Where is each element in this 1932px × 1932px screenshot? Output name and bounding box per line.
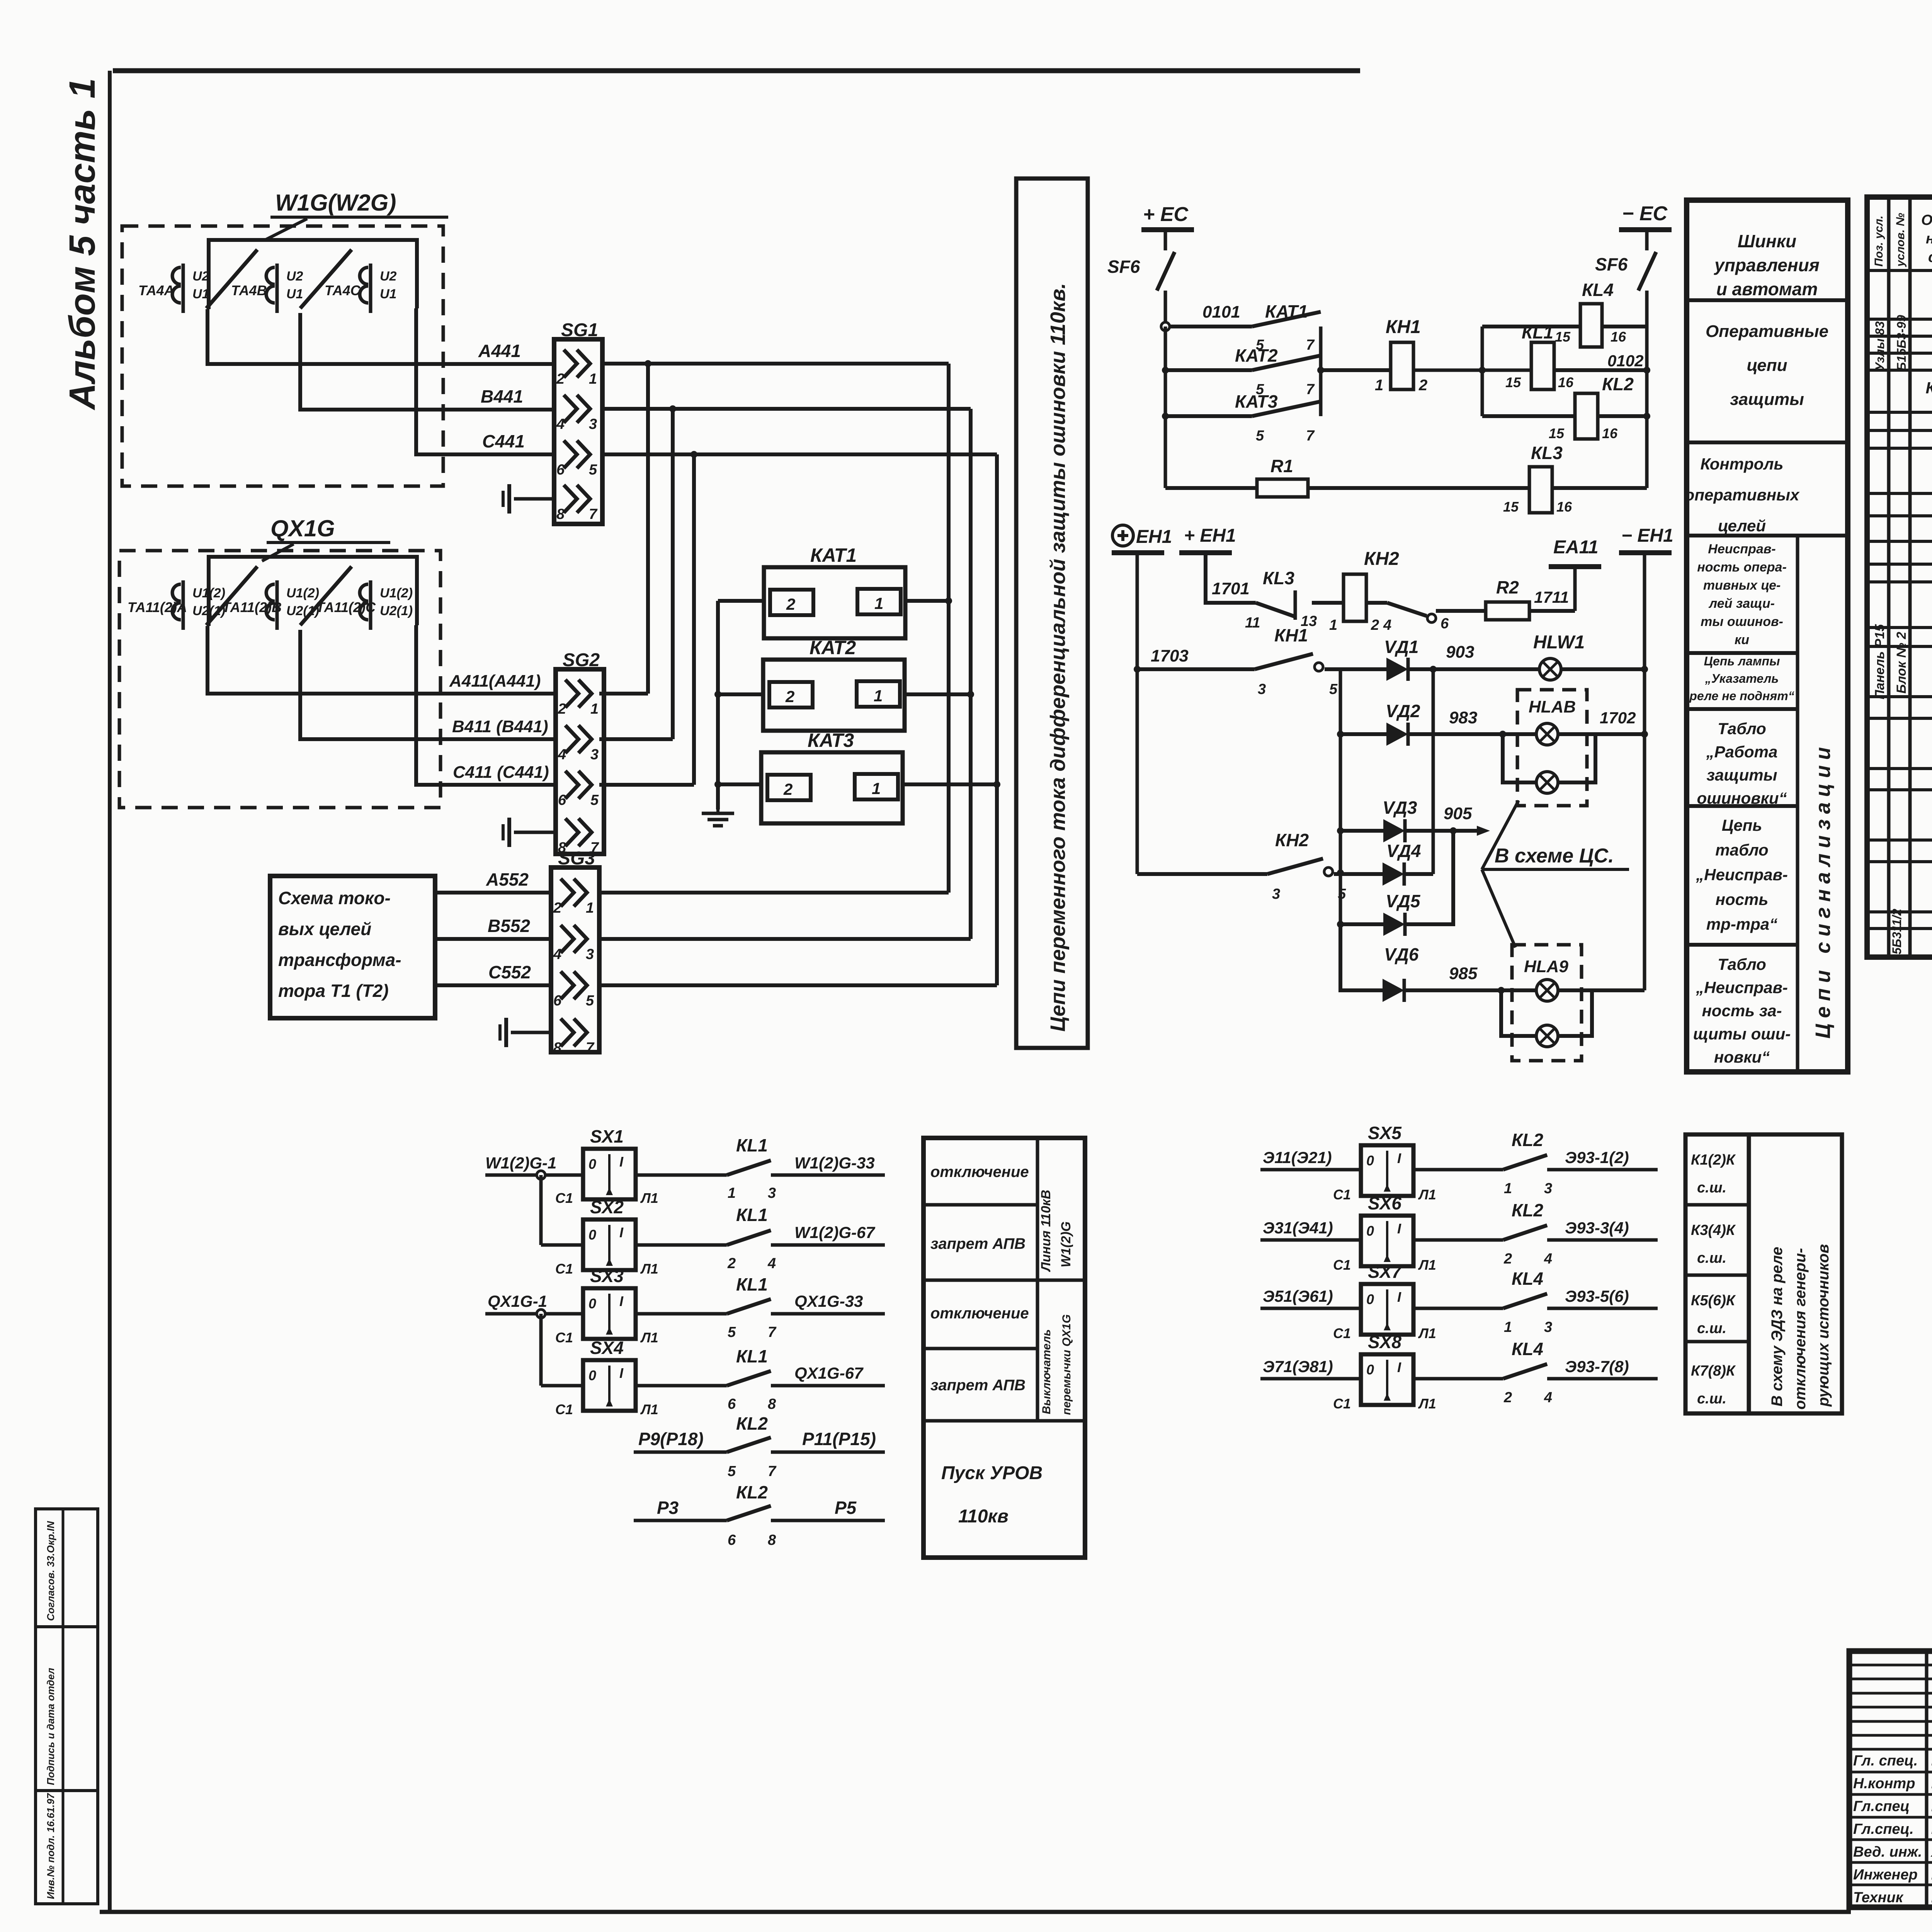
wire E71(E81): [1260, 1357, 1361, 1379]
svg-text:КАТ1: КАТ1: [810, 544, 857, 566]
svg-text:К7(8)К: К7(8)К: [1691, 1363, 1736, 1379]
svg-text:I: I: [1397, 1150, 1401, 1166]
svg-text:С411 (С441): С411 (С441): [453, 763, 549, 782]
svg-text:7: 7: [768, 1463, 777, 1480]
svg-text:I: I: [619, 1365, 624, 1381]
svg-text:А552: А552: [486, 869, 529, 889]
node 0101: [1161, 303, 1240, 331]
svg-text:КL1: КL1: [736, 1346, 768, 1366]
svg-text:VД5: VД5: [1386, 891, 1421, 911]
svg-text:Э51(Э61): Э51(Э61): [1263, 1287, 1333, 1305]
relay coil КАТ1: [764, 544, 905, 638]
svg-text:7: 7: [1306, 428, 1315, 444]
riser C441-KAT3-C552: [993, 454, 1000, 985]
diode bus vertical: [1337, 669, 1344, 990]
svg-text:С552: С552: [488, 962, 531, 982]
svg-text:15: 15: [1505, 374, 1521, 390]
svg-text:К3(4)К: К3(4)К: [1691, 1222, 1736, 1238]
wire SG2-5 to riser: [599, 783, 694, 787]
lamp HLA9 lower: [1501, 990, 1592, 1047]
bus +EC: [1141, 203, 1194, 232]
svg-text:Узлы 83: Узлы 83: [1873, 321, 1887, 371]
svg-text:перемычки QХ1G: перемычки QХ1G: [1060, 1314, 1073, 1415]
link VD5 to 905: [1406, 831, 1453, 924]
diode VD4: [1334, 841, 1433, 886]
svg-text:3: 3: [768, 1185, 776, 1201]
contact KAT2: [1165, 345, 1321, 398]
svg-text:„Работа: „Работа: [1706, 743, 1778, 761]
svg-text:Пуск УРОВ: Пуск УРОВ: [941, 1463, 1043, 1483]
contact KL1 row3: [636, 1274, 777, 1340]
contact KL4 row SX7: [1413, 1269, 1552, 1335]
note to central signalling: [1482, 801, 1629, 947]
svg-text:ки: ки: [1735, 633, 1749, 647]
svg-text:отключения генери-: отключения генери-: [1792, 1248, 1809, 1410]
svg-text:С1: С1: [1333, 1325, 1351, 1341]
svg-text:2: 2: [1503, 1251, 1512, 1267]
svg-text:Цепь: Цепь: [1722, 816, 1762, 834]
wire C441: [416, 308, 554, 454]
switch SX7: [1333, 1262, 1436, 1341]
switch SX4: [555, 1338, 658, 1417]
svg-text:15: 15: [1503, 499, 1519, 515]
wire SG3-3 to riser: [599, 937, 971, 941]
right signal bus -EH1: [1641, 555, 1648, 990]
svg-text:НLА9: НLА9: [1524, 957, 1568, 976]
svg-text:U1(2): U1(2): [380, 586, 413, 600]
svg-text:„Неисправ-: „Неисправ-: [1696, 978, 1788, 997]
switch SX2: [555, 1197, 658, 1277]
wire KAT3 pin2 to ground bus: [714, 781, 761, 788]
wire E93-1(2): [1547, 1148, 1658, 1170]
svg-text:3: 3: [1258, 681, 1266, 697]
svg-text:6: 6: [558, 792, 566, 808]
svg-text:Э93-5(6): Э93-5(6): [1565, 1287, 1629, 1305]
svg-text:QХ1G-67: QХ1G-67: [794, 1364, 864, 1383]
wire C411(C441): [416, 625, 556, 785]
svg-text:VД1: VД1: [1384, 637, 1418, 657]
svg-text:ошиновки“: ошиновки“: [1697, 789, 1787, 807]
svg-text:вых целей: вых целей: [278, 919, 371, 939]
svg-text:В схему ЭДЗ на реле: В схему ЭДЗ на реле: [1769, 1247, 1786, 1406]
svg-text:Л1: Л1: [640, 1190, 658, 1206]
svg-text:0: 0: [1366, 1223, 1374, 1239]
svg-text:запрет АПВ: запрет АПВ: [930, 1377, 1026, 1394]
svg-text:U2: U2: [286, 269, 303, 284]
svg-text:ТА11(2)А: ТА11(2)А: [128, 599, 187, 615]
svg-text:КL2: КL2: [1512, 1130, 1543, 1150]
svg-text:рующих источников: рующих источников: [1815, 1244, 1832, 1407]
svg-text:I: I: [619, 1293, 624, 1309]
contact KL1 row2: [636, 1205, 776, 1272]
svg-text:3: 3: [586, 946, 594, 963]
svg-text:2: 2: [1418, 377, 1427, 394]
svg-text:SG3: SG3: [558, 848, 595, 869]
right bus of control circuit: [1643, 327, 1650, 488]
svg-text:КL1: КL1: [736, 1135, 768, 1155]
function table line110: [923, 1138, 1085, 1558]
svg-text:С1: С1: [555, 1330, 573, 1345]
left bar of relay column: [1481, 327, 1484, 416]
wire E51(E61): [1260, 1287, 1361, 1308]
svg-text:4: 4: [767, 1255, 776, 1272]
svg-text:КL4: КL4: [1512, 1339, 1543, 1359]
svg-text:1: 1: [874, 687, 883, 705]
svg-text:SF6: SF6: [1107, 257, 1140, 277]
svg-text:Согласов. 33.Окр.IN: Согласов. 33.Окр.IN: [45, 1520, 56, 1621]
svg-text:новки“: новки“: [1714, 1048, 1770, 1066]
svg-text:С441: С441: [482, 431, 525, 451]
svg-text:5: 5: [728, 1324, 736, 1340]
switch SX6: [1333, 1193, 1436, 1273]
svg-text:С1: С1: [1333, 1257, 1351, 1273]
svg-text:1: 1: [1329, 617, 1337, 633]
svg-text:SХ6: SХ6: [1368, 1193, 1401, 1213]
svg-text:2: 2: [556, 371, 565, 387]
wire W1(2)G-1: [485, 1154, 583, 1179]
wire B552: [435, 916, 551, 939]
svg-text:SХ5: SХ5: [1368, 1123, 1402, 1143]
svg-text:1711: 1711: [1534, 588, 1569, 606]
equipment list table: [1867, 197, 1932, 957]
svg-text:15: 15: [1555, 329, 1571, 345]
svg-text:ность опера-: ность опера-: [1697, 560, 1787, 575]
svg-text:− ЕН1: − ЕН1: [1621, 526, 1673, 546]
indicating relay KH2 coil: [1312, 549, 1399, 633]
svg-text:КАТ3: КАТ3: [1235, 391, 1278, 412]
svg-text:SХ3: SХ3: [590, 1266, 624, 1286]
relay coil KL3: [1503, 443, 1572, 515]
wire 983: [1410, 708, 1537, 738]
lamp assembly HLA9 dashed box: [1512, 945, 1582, 1061]
svg-text:0102: 0102: [1607, 352, 1643, 370]
wire KAT3 pin1 to riser: [903, 782, 997, 786]
svg-text:7: 7: [768, 1324, 777, 1340]
riser A441-KAT1-A552: [945, 364, 952, 893]
section bar AC circuits: [1016, 179, 1088, 1048]
svg-text:4: 4: [1383, 617, 1391, 633]
wire KL4 to right bus: [1602, 325, 1647, 328]
wire SG2-3 to riser: [599, 737, 673, 741]
svg-text:С1: С1: [555, 1190, 573, 1206]
relay coil KL2: [1549, 374, 1634, 441]
svg-text:W1(2)G-33: W1(2)G-33: [794, 1154, 875, 1172]
svg-text:ТА11(2)С: ТА11(2)С: [316, 599, 376, 615]
svg-text:Выключатель: Выключатель: [1040, 1329, 1053, 1414]
svg-text:1: 1: [586, 900, 594, 916]
wire from SG1-5 to riser: [602, 451, 997, 458]
svg-text:„Неисправ-: „Неисправ-: [1696, 866, 1788, 884]
contact KL2 row SX6: [1413, 1200, 1552, 1267]
svg-text:15: 15: [1549, 425, 1565, 441]
current transformer TA11(2)C: [316, 580, 413, 630]
svg-text:Цепи переменного тока диффере: Цепи переменного тока дифференциальной з…: [1046, 283, 1070, 1032]
svg-text:3: 3: [1544, 1180, 1552, 1197]
wire SG3-1 to riser: [599, 891, 949, 895]
svg-text:5: 5: [586, 993, 594, 1009]
riser C441-C411: [692, 454, 696, 785]
svg-text:2: 2: [1371, 617, 1379, 633]
svg-text:схеме: схеме: [1928, 249, 1932, 265]
svg-text:985: 985: [1449, 964, 1478, 983]
svg-text:Альбом 5 часть 1: Альбом 5 часть 1: [62, 78, 103, 410]
contact KAT3: [1165, 391, 1321, 444]
svg-text:реле не поднят“: реле не поднят“: [1689, 689, 1794, 703]
riser B441-KAT2-B552: [967, 409, 974, 939]
sheet frame left border: [108, 71, 112, 1912]
sheet frame bottom border: [100, 1910, 1851, 1914]
svg-text:Н.контр: Н.контр: [1853, 1776, 1915, 1792]
svg-text:защиты: защиты: [1707, 766, 1777, 784]
svg-text:SХ8: SХ8: [1368, 1332, 1401, 1352]
svg-text:U2: U2: [380, 269, 397, 284]
svg-text:11: 11: [1245, 615, 1260, 631]
title block: [1849, 1651, 1932, 1907]
svg-text:8: 8: [556, 506, 565, 522]
svg-text:В552: В552: [488, 916, 530, 936]
svg-text:КL1: КL1: [1522, 322, 1553, 342]
svg-text:8: 8: [768, 1396, 776, 1412]
svg-text:защиты: защиты: [1730, 390, 1804, 409]
breaker SF6 left: [1107, 232, 1175, 327]
wire 1711 to EA11: [1529, 569, 1575, 611]
note to EDZ scheme box: [1749, 1134, 1842, 1413]
junction bar after KAT contacts: [1317, 327, 1324, 416]
svg-text:6: 6: [553, 993, 562, 1009]
svg-text:Контроль: Контроль: [1701, 455, 1784, 473]
wire SG2-1 to riser: [599, 692, 648, 696]
svg-text:SG2: SG2: [563, 650, 600, 670]
svg-text:Р5: Р5: [835, 1498, 857, 1518]
svg-text:К1(2)К: К1(2)К: [1691, 1152, 1736, 1168]
svg-text:1: 1: [872, 779, 881, 798]
svg-text:Л1: Л1: [1418, 1257, 1436, 1273]
svg-text:А441: А441: [478, 341, 521, 361]
relay coil KL4: [1555, 280, 1626, 347]
wire QX1G-67: [771, 1364, 885, 1386]
wire KL1 to right bus: [1554, 352, 1647, 370]
svg-text:4: 4: [1544, 1251, 1552, 1267]
svg-text:7: 7: [1306, 381, 1315, 398]
svg-text:С1: С1: [1333, 1396, 1351, 1412]
contact KH2 self: [1366, 603, 1449, 633]
link group QX1G dashed box: [119, 551, 440, 808]
svg-text:W1(2)G-67: W1(2)G-67: [794, 1223, 875, 1242]
svg-text:SF6: SF6: [1595, 254, 1628, 274]
wire W1(2)G-67: [771, 1223, 885, 1245]
svg-text:отключение: отключение: [930, 1305, 1029, 1322]
contact KL2 P3-P5: [634, 1482, 885, 1548]
svg-text:ность за-: ность за-: [1702, 1002, 1782, 1020]
svg-text:5: 5: [728, 1463, 736, 1480]
svg-text:6: 6: [728, 1532, 736, 1548]
svg-text:5: 5: [590, 792, 599, 808]
svg-text:0: 0: [1366, 1153, 1374, 1168]
wire A411(A441): [207, 626, 556, 694]
test block SG1: [554, 320, 602, 524]
wire from SG1-3 to riser: [602, 405, 971, 412]
label QX1G: [262, 515, 390, 561]
wire KAT2 pin1 to riser: [903, 692, 971, 696]
svg-text:А411(А441): А411(А441): [449, 672, 541, 690]
svg-text:110кв: 110кв: [958, 1506, 1009, 1527]
svg-text:щиты оши-: щиты оши-: [1693, 1025, 1791, 1043]
relay coil КАТ2: [763, 637, 905, 731]
svg-text:оперативных: оперативных: [1685, 486, 1800, 504]
svg-text:U1: U1: [192, 287, 209, 301]
svg-text:Гл.спец.: Гл.спец.: [1853, 1821, 1914, 1837]
svg-text:R2: R2: [1496, 577, 1519, 597]
svg-text:Неисправ-: Неисправ-: [1708, 542, 1776, 556]
svg-text:с.ш.: с.ш.: [1697, 1180, 1726, 1196]
lamp HLA9 upper: [1536, 980, 1558, 1001]
svg-text:+ ЕС: + ЕС: [1143, 203, 1189, 226]
svg-text:КL1: КL1: [736, 1205, 768, 1225]
svg-text:тора Т1 (Т2): тора Т1 (Т2): [278, 981, 389, 1001]
wire A552: [435, 869, 551, 893]
svg-text:0: 0: [1366, 1291, 1374, 1307]
wire from SG1-1 to riser: [602, 360, 949, 367]
signal lamp HLW1: [1533, 632, 1585, 680]
svg-text:U1: U1: [380, 287, 396, 301]
svg-text:Техник: Техник: [1853, 1889, 1904, 1906]
svg-text:5: 5: [1329, 681, 1338, 697]
svg-text:НLW1: НLW1: [1533, 632, 1585, 653]
svg-text:VД2: VД2: [1386, 701, 1420, 721]
svg-text:7: 7: [589, 506, 598, 522]
svg-text:I: I: [1397, 1359, 1401, 1375]
svg-text:7: 7: [586, 1040, 595, 1056]
svg-text:QХ1G-1: QХ1G-1: [488, 1292, 547, 1311]
left signal bus from +EH1: [1134, 555, 1141, 874]
svg-text:с.ш.: с.ш.: [1697, 1250, 1726, 1266]
wire C552: [435, 962, 551, 985]
left bus of KAT contacts: [1162, 327, 1169, 488]
svg-text:Л1: Л1: [1418, 1325, 1436, 1341]
sheet frame top border: [113, 68, 1360, 73]
switch SX8: [1333, 1332, 1436, 1412]
svg-text:1: 1: [1504, 1180, 1512, 1197]
bus +EH1: [1179, 526, 1236, 555]
svg-text:SХ4: SХ4: [590, 1338, 624, 1358]
margin stamp box 3: [36, 1791, 98, 1904]
svg-text:6: 6: [556, 462, 565, 478]
current transformer TA4C: [325, 264, 397, 313]
current transformer TA4B: [231, 264, 303, 313]
svg-text:2: 2: [785, 687, 794, 706]
svg-text:Э93-7(8): Э93-7(8): [1565, 1357, 1629, 1376]
svg-text:1703: 1703: [1151, 646, 1189, 665]
svg-text:КL4: КL4: [1582, 280, 1614, 300]
svg-text:В411 (В441): В411 (В441): [452, 717, 548, 736]
riser A441-A411: [646, 364, 650, 694]
svg-text:3: 3: [590, 747, 599, 763]
svg-text:КАТ2: КАТ2: [810, 637, 856, 658]
diode VD2: [1340, 701, 1420, 746]
svg-text:U2(1): U2(1): [380, 604, 413, 618]
wire QX1G-33: [771, 1292, 885, 1314]
test block SG2: [556, 650, 604, 856]
relay coil KL1: [1505, 322, 1574, 390]
wire KAT1 pin2 to ground bus: [718, 599, 764, 603]
svg-text:КL2: КL2: [1602, 374, 1634, 394]
contact KL2 row SX5: [1413, 1130, 1552, 1197]
diode VD6: [1340, 924, 1419, 1002]
wire to SX4: [541, 1314, 583, 1386]
svg-text:В441: В441: [481, 386, 523, 406]
wire KAT2 pin2 to ground bus: [714, 691, 763, 698]
svg-text:905: 905: [1444, 804, 1472, 823]
contact KH1: [1137, 625, 1338, 697]
wire row3 to KL2: [1482, 414, 1575, 418]
svg-text:Р11(Р15): Р11(Р15): [802, 1429, 876, 1449]
svg-text:Цепи сигнализации: Цепи сигнализации: [1811, 742, 1835, 1039]
link VD1-VD4: [1432, 669, 1435, 874]
diode VD3: [1340, 798, 1417, 842]
svg-text:7: 7: [1306, 337, 1315, 353]
svg-text:1: 1: [1375, 377, 1383, 394]
svg-text:I: I: [1397, 1221, 1401, 1236]
svg-text:1: 1: [590, 701, 599, 717]
svg-text:КН2: КН2: [1275, 830, 1309, 850]
svg-text:Линия 110кВ: Линия 110кВ: [1039, 1190, 1053, 1272]
svg-text:6: 6: [728, 1396, 736, 1412]
ground at SG3: [500, 1018, 551, 1047]
svg-text:0: 0: [588, 1367, 596, 1383]
svg-text:ТА11(2)В: ТА11(2)В: [222, 599, 282, 615]
svg-text:Р3: Р3: [657, 1498, 679, 1518]
svg-text:2: 2: [727, 1255, 736, 1272]
svg-text:КL2: КL2: [736, 1482, 768, 1502]
svg-text:U2: U2: [192, 269, 209, 284]
wire SG3-5 to riser: [599, 983, 997, 987]
svg-text:1: 1: [728, 1185, 736, 1201]
lamp HLA8 lower: [1503, 734, 1595, 793]
svg-text:К5(6)К: К5(6)К: [1691, 1293, 1736, 1309]
svg-text:целей: целей: [1718, 517, 1766, 535]
wire E31(E41): [1260, 1219, 1361, 1240]
svg-text:+ ЕН1: + ЕН1: [1184, 526, 1236, 546]
svg-text:КАТ1: КАТ1: [1265, 301, 1308, 321]
svg-text:903: 903: [1446, 643, 1474, 662]
svg-text:КН1: КН1: [1386, 317, 1421, 337]
svg-text:8: 8: [768, 1532, 776, 1548]
svg-text:1701: 1701: [1212, 579, 1250, 598]
switch SX5: [1333, 1123, 1436, 1202]
margin stamp box 2: [36, 1627, 98, 1791]
polarity link TA4B-TA4C: [300, 250, 352, 308]
svg-text:0: 0: [588, 1296, 596, 1311]
svg-text:КН2: КН2: [1364, 549, 1399, 569]
svg-text:Л1: Л1: [640, 1261, 658, 1277]
label W1G(W2G): [266, 190, 448, 240]
svg-text:Л1: Л1: [640, 1330, 658, 1345]
ground at SG1: [503, 484, 554, 514]
svg-text:трансформа-: трансформа-: [278, 950, 401, 970]
svg-text:Э93-3(4): Э93-3(4): [1565, 1219, 1629, 1237]
box transformer current circuits: [270, 876, 435, 1018]
svg-text:4: 4: [558, 747, 566, 763]
wire HLW1 to -EH1 bus: [1561, 667, 1645, 671]
wire E11(E21): [1260, 1148, 1361, 1170]
svg-text:Блок № 2: Блок № 2: [1894, 632, 1909, 694]
svg-text:VД4: VД4: [1386, 841, 1421, 861]
svg-text:16: 16: [1602, 425, 1618, 441]
wire to KH1: [1321, 368, 1391, 372]
svg-text:Инженер: Инженер: [1853, 1867, 1918, 1883]
wire 905 with arrow: [1406, 804, 1490, 836]
wire KAT1 pin1 to riser: [905, 599, 949, 603]
